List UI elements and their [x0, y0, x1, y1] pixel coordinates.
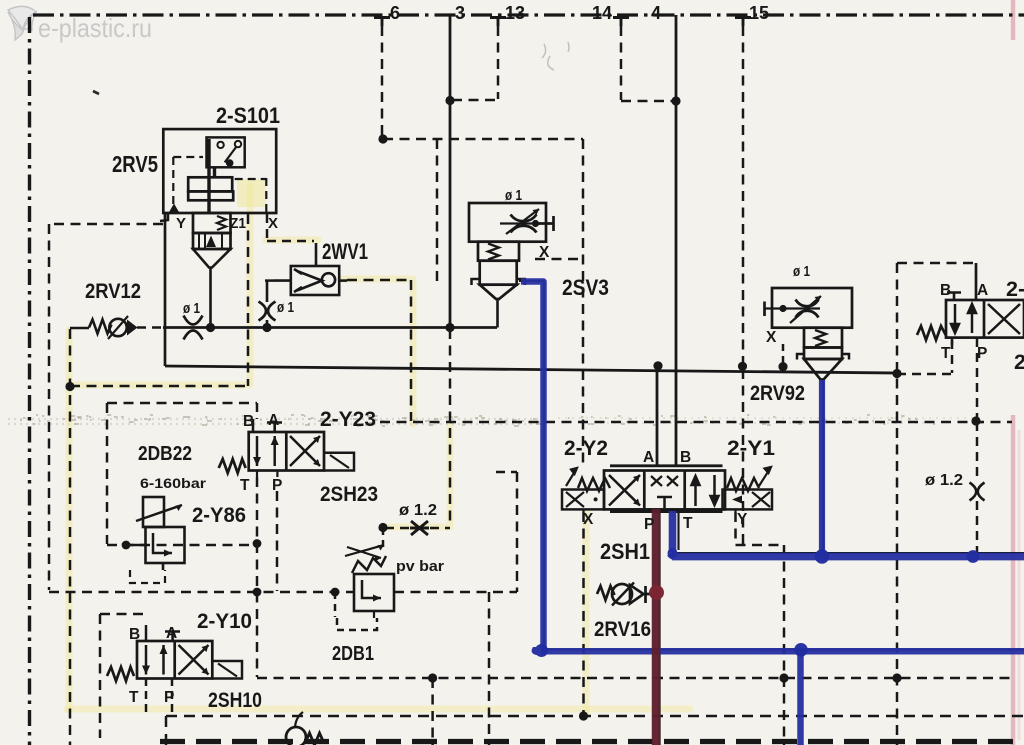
- svg-text:P: P: [977, 345, 987, 362]
- scanner speckle band left: [8, 419, 545, 424]
- node junction (267,327.5): [262, 323, 271, 332]
- svg-text:2SH23: 2SH23: [320, 482, 378, 506]
- svg-text:A: A: [166, 625, 177, 642]
- svg-text:T: T: [941, 345, 951, 362]
- hose joint blobs blue: [532, 548, 980, 657]
- svg-text:ø 1: ø 1: [793, 264, 810, 280]
- valve 2DB1 (pv pressure valve): [345, 545, 394, 618]
- svg-text:T: T: [129, 689, 139, 706]
- yellow highlighter trace: 2WV1 top pilot branch: [266, 237, 318, 244]
- check valve 2RV16: [597, 583, 652, 606]
- wire: 2SH10 P-port dashed: [171, 678, 174, 712]
- node junction (583.5,716): [579, 711, 588, 720]
- svg-text:A: A: [268, 412, 279, 429]
- wire: hose black line under blue from 2SH1 T: [676, 511, 1024, 553]
- 2-S101 piston slabs: [188, 177, 232, 191]
- wire: dashed y545 2-Y86 to 2SH23 T: [107, 544, 257, 547]
- node junction (383,139): [378, 134, 387, 143]
- svg-text:X: X: [539, 244, 550, 261]
- svg-text:2RV16: 2RV16: [594, 617, 651, 641]
- node junction (257,592): [253, 588, 262, 597]
- svg-text:2-Y10: 2-Y10: [197, 609, 252, 633]
- wire: left box vertical from 2-S101: [164, 213, 167, 366]
- node tick line 14: [613, 18, 629, 27]
- yellow highlighter trace: left vent line down: [66, 330, 73, 710]
- valve 2-...(right edge solenoid valve): [917, 293, 1024, 346]
- wire: main pressure line horizontal (slight scan skew): [165, 366, 897, 373]
- yellow highlighter trace: bottom tank line: [67, 706, 690, 713]
- svg-text:A: A: [977, 282, 988, 299]
- valve 2SH23 (solenoid valve 2-Y23): [219, 419, 354, 477]
- svg-text:6-160bar: 6-160bar: [140, 476, 207, 491]
- wire: long dashed line y422: [380, 421, 1012, 424]
- svg-text:P: P: [644, 516, 654, 533]
- yellow highlighter trace: pilot line 13 segment: [387, 424, 450, 527]
- border chain line top: [33, 13, 1024, 16]
- node junction (383,527.5): [378, 523, 387, 532]
- 2-S101 pilot rollers: [217, 142, 223, 148]
- 2-S101 Y-port arrow: [169, 204, 180, 214]
- svg-text:pv bar: pv bar: [396, 558, 444, 575]
- svg-text:2-Y86: 2-Y86: [192, 503, 246, 527]
- svg-text:B: B: [129, 626, 140, 643]
- wire: 2SH1 X-port dashed down: [582, 512, 585, 715]
- node junction (335,592): [331, 588, 340, 597]
- 2-S101 Y-port jog: [160, 213, 168, 221]
- valve 2-Y86 / 2DB22 (proportional pressure reducer): [130, 497, 185, 583]
- svg-text:Y: Y: [176, 215, 186, 232]
- svg-text:2RV92: 2RV92: [750, 381, 805, 405]
- svg-text:X: X: [766, 329, 777, 346]
- wire: right valve P-port dashed down through throttle to blue line: [976, 338, 979, 552]
- wire: pilot line 15 dashed vertical long: [742, 26, 745, 544]
- node junction (70,386.5): [65, 382, 74, 391]
- wire: right assembly T-port return dashed: [897, 340, 952, 374]
- svg-text:2-S101: 2-S101: [216, 103, 280, 128]
- svg-text:Y: Y: [737, 511, 748, 528]
- node junction (257,543.5): [253, 539, 262, 548]
- wire: 2RV92 X pilot dashed: [782, 344, 785, 364]
- border chain line left: [28, 17, 31, 745]
- yellow highlighter trace: 2WV1 right pilot to corner and down: [340, 279, 413, 424]
- svg-text:2-: 2-: [1006, 277, 1024, 301]
- throttle o1.2 right on dashed line: [970, 483, 985, 501]
- wire: 2DB22 box left dashed: [106, 403, 109, 544]
- node junction (784,678): [779, 673, 788, 682]
- svg-text:ø 1: ø 1: [183, 301, 200, 317]
- svg-text:ø 1: ø 1: [505, 188, 522, 204]
- wire: 2SH10 dashed box top and left: [100, 614, 147, 738]
- svg-text:2RV5: 2RV5: [112, 151, 158, 177]
- svg-text:14: 14: [592, 3, 612, 23]
- 2-S101 lower valve upper body with spring: [193, 213, 231, 233]
- yellow highlighter trace: 2-S101 Z1 pilot patch: [237, 179, 266, 207]
- 2RV5 inner dashed boundary: [173, 157, 266, 213]
- svg-text:B: B: [680, 449, 691, 466]
- wire: dashed stub to 2DB1 spring: [382, 528, 385, 548]
- wire: 2-S101 X pilot dashed to 2WV1: [267, 214, 314, 241]
- throttle o1 left on supply line: [184, 316, 203, 340]
- wire: tank dashed line y592 right segment to riser: [394, 472, 517, 592]
- component 2-S101 outer box: [160, 129, 276, 267]
- node junction (450,327.5): [445, 323, 454, 332]
- wire: vent dashed vertical left long: [69, 329, 72, 745]
- wire: line 3 pilot dashed below junction: [449, 329, 452, 527]
- wire: pilot dashed y386 horizontal: [70, 385, 247, 388]
- svg-text:4: 4: [651, 3, 661, 23]
- svg-text:2-Y1: 2-Y1: [727, 436, 775, 460]
- wire: dashes between 2RV12 and left box line: [137, 326, 163, 329]
- svg-text:2DB1: 2DB1: [332, 642, 374, 665]
- wire: right valve A-port line up: [975, 263, 978, 300]
- node junction (897,373.5): [892, 369, 901, 378]
- drain bracket under 2DB1: [337, 618, 377, 630]
- svg-text:2-Y2: 2-Y2: [564, 436, 608, 460]
- svg-text:13: 13: [505, 3, 525, 23]
- wire: 2SV3 pilot box top dashed: [383, 138, 583, 141]
- hose: blue return line from 2SV3 down and along bottom: [521, 282, 1024, 745]
- valve 2SV3 (pilot operated relief): [469, 203, 554, 299]
- wire: 2-S101 Z1 pilot dashed down: [247, 214, 250, 386]
- svg-text:A: A: [643, 449, 654, 466]
- valve 2RV12 (spring check relief): [89, 316, 138, 339]
- wire: dashed x489 down from tank line: [488, 592, 491, 745]
- valve 2SH10 (solenoid valve 2-Y10): [107, 625, 242, 681]
- node tick line 13: [490, 18, 506, 27]
- node tick line 15: [735, 18, 751, 27]
- svg-text:T: T: [683, 515, 693, 532]
- svg-text:2SH1: 2SH1: [600, 539, 650, 564]
- node junction (450,100.5): [445, 96, 454, 105]
- 2-S101 funnel: [193, 249, 231, 268]
- hose joint blob red at 2RV16: [649, 585, 664, 600]
- valve 2WV1 (pilot check): [291, 262, 339, 295]
- svg-text:15: 15: [749, 3, 769, 23]
- wire: 2WV1 right port dashed to corner and down: [339, 279, 347, 282]
- wire: 2SV3 pilot box bottom dashed: [535, 258, 583, 261]
- node tick line 6: [374, 18, 390, 27]
- svg-text:X: X: [583, 511, 594, 528]
- svg-text:2SH10: 2SH10: [208, 688, 262, 712]
- node junction (783,366.6): [778, 362, 787, 371]
- wire: 2WV1 left port: [265, 279, 274, 282]
- watermark logo e-plastic.ru: [8, 6, 36, 40]
- svg-text:ø 1.2: ø 1.2: [925, 472, 963, 489]
- svg-text:ø 1: ø 1: [277, 300, 294, 316]
- svg-text:2RV12: 2RV12: [85, 279, 141, 303]
- wire: 2-S101 Y-port dashed left and down: [49, 224, 163, 590]
- svg-text:3: 3: [455, 3, 465, 23]
- wire: 2WV1 top port line: [315, 243, 318, 266]
- wire: 2WV1 throttle to junction: [266, 320, 269, 328]
- wire: supply line 4 solid vertical to 2SH1 port B: [675, 15, 678, 466]
- hose: blue drop line at x800: [797, 651, 804, 745]
- wire: 2SH23 T-port dashed down and east along y678: [257, 477, 1012, 678]
- scanner speck left: [93, 91, 99, 94]
- wire: supply line 3 solid vertical: [449, 15, 452, 328]
- 2-S101 pilot element box: [207, 137, 245, 167]
- svg-text:Z1: Z1: [230, 215, 246, 232]
- wire: 2DB22 box right dashed above valve: [256, 403, 259, 419]
- bottom heavy dashed border: [160, 739, 1024, 744]
- wire: branch dashed x335 to 2DB1 drain bracket: [334, 592, 337, 617]
- svg-text:B: B: [243, 413, 254, 430]
- svg-text:P: P: [272, 477, 282, 494]
- wire: bottom dashed line y716: [166, 716, 1024, 745]
- node junction (210.5,327.5): [206, 323, 215, 332]
- svg-text:2DB22: 2DB22: [138, 442, 192, 465]
- hose: blue line from 2SH1 T-port: [672, 511, 1024, 557]
- wire: 2-Y86 outlet line: [126, 544, 146, 547]
- wire: 2-S101 outlet vertical: [209, 268, 212, 328]
- wire: dashed x432 down from y678: [431, 678, 434, 745]
- hose: blue line from 2RV92: [819, 380, 825, 553]
- valve 2SH1 (proportional directional valve 2-Y2/2-Y1): [562, 466, 772, 512]
- wire: vent corner to 2RV12 spring: [70, 327, 89, 330]
- svg-text:2: 2: [1014, 350, 1024, 374]
- wire: 2SH1 A-port line from main line: [656, 367, 659, 466]
- wire: dashed y528 with throttle o1.2: [385, 527, 450, 530]
- wire: dashed lower-left region 2DB22 box top: [107, 402, 257, 405]
- yellow highlighter trace: Z1 pilot line down and left to vent line: [72, 186, 250, 385]
- scanner smudge top center: [542, 42, 569, 70]
- wire: 2SV3 outlet vertical: [496, 299, 499, 328]
- wire: black line under red pressure hose: [659, 511, 661, 745]
- 2-S101 lower valve hatched body: [193, 233, 231, 249]
- wire: 2SH23 P-port dashed down to tank line: [276, 491, 279, 591]
- wire: pilot line 13 dashed vertical and jog to line 3: [452, 26, 498, 100]
- wire: 2SH10 T-port dashed: [145, 678, 148, 712]
- wire: tank dashed line y592 left segment: [49, 591, 354, 594]
- node junction (658,365.8): [653, 361, 662, 370]
- pump symbol at bottom edge: [286, 712, 324, 745]
- svg-text:2-Y23: 2-Y23: [320, 407, 376, 431]
- 2-S101 pilot lever: [225, 147, 237, 163]
- node junction (897,678): [892, 673, 901, 682]
- throttle o1.2 center on dashed pilot: [410, 521, 429, 535]
- svg-text:X: X: [268, 215, 278, 232]
- throttle o1 on 2WV1 drop line: [259, 302, 276, 321]
- scan edge artifact right: [1011, 0, 1016, 745]
- scanner speckle band right: [558, 418, 985, 423]
- wire: right assembly dashed box left x897: [896, 263, 899, 745]
- node junction (976,421): [971, 416, 980, 425]
- svg-text:2SV3: 2SV3: [562, 275, 609, 300]
- valve 2RV92 (pilot relief with throttle): [765, 288, 853, 380]
- node junction (676,101): [671, 96, 680, 105]
- node junction (742.5,366.3): [738, 362, 747, 371]
- svg-text:e-plastic.ru: e-plastic.ru: [38, 13, 152, 43]
- svg-text:2WV1: 2WV1: [322, 239, 368, 264]
- node junction (432.6,678): [428, 673, 437, 682]
- 2-S101 stem: [209, 139, 215, 213]
- wire: pilot line 14 dashed vertical and jog to line 4: [621, 26, 673, 101]
- svg-text:6: 6: [390, 3, 400, 23]
- wire: 2SH1 Y-port dashed down and east: [736, 512, 785, 745]
- svg-text:ø 1.2: ø 1.2: [399, 502, 437, 519]
- wire: pilot line 6 dashed vertical: [381, 26, 384, 136]
- wire: 2SV3 pilot box left dashed: [436, 139, 439, 283]
- svg-text:T: T: [240, 477, 250, 494]
- wire: 2SV3 pilot box right dashed down to 2SH1 X port: [582, 139, 585, 468]
- wire: right assembly dashed box top: [897, 262, 976, 265]
- svg-text:B: B: [940, 282, 951, 299]
- yellow highlighter trace: 2SH1 X-port drain: [583, 512, 590, 713]
- wire: throttle supply line horizontal: [163, 326, 497, 329]
- node junction (126,545): [122, 541, 131, 550]
- wire: dashed stub toward 2SH1 X drain: [496, 471, 517, 474]
- wire: hose black line under blue from 2SV3: [519, 281, 1024, 745]
- svg-text:P: P: [164, 689, 174, 706]
- wire: hose black line under blue from 2RV92: [822, 380, 824, 554]
- hose: dark red pressure line from 2SH1 P-port: [652, 509, 661, 745]
